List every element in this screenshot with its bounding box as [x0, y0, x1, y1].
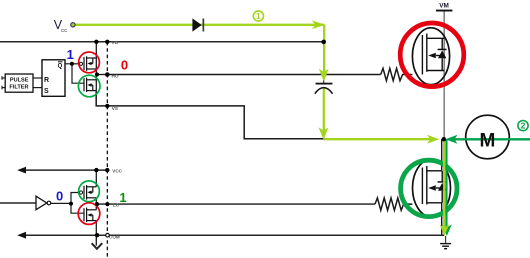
pulse filter box	[5, 74, 33, 92]
svg-text:0: 0	[56, 189, 63, 204]
wire Q2 drain	[441, 139, 443, 171]
wire HO tee	[96, 74, 107, 76]
wire VB rail	[0, 41, 324, 43]
svg-text:COM: COM	[109, 234, 120, 239]
ground arrow below low driver	[95, 235, 97, 245]
inverter low-side input	[36, 196, 47, 210]
label circled 1	[253, 11, 263, 21]
wire RS output	[65, 63, 72, 65]
wire driver-pair vertical (VCC to COM)	[95, 170, 97, 187]
arrow path 2 to ground	[442, 224, 451, 236]
node COM terminal (open)	[106, 233, 110, 237]
svg-text:0: 0	[121, 58, 128, 73]
wire VCC line (low-side driver)	[25, 169, 108, 171]
svg-text:VS: VS	[112, 106, 118, 111]
wire LO line	[96, 203, 375, 205]
body diode Q1	[438, 49, 447, 51]
wire HO line	[107, 74, 380, 76]
wire path 2 down through Q2 (dark green)	[445, 140, 447, 230]
circle red around high PMOS	[79, 52, 100, 73]
current path 1 (bright green): Vcc to bootstrap cap	[75, 24, 324, 26]
pulse filter input stubs	[2, 77, 6, 79]
svg-text:R: R	[44, 77, 49, 84]
svg-text:S: S	[44, 88, 49, 95]
ring red around Q1	[400, 23, 464, 87]
arrow path 1 right before corner	[312, 21, 325, 30]
svg-text:Q: Q	[58, 63, 63, 69]
arrow VCC left	[17, 167, 26, 174]
arrow path 1 to ground	[440, 224, 450, 236]
resistor RG1 (high-side gate)	[381, 68, 413, 80]
svg-text:FILTER: FILTER	[9, 85, 28, 91]
wire VS stub from dashed line	[106, 105, 108, 107]
MOSFET Q1 high-side (body ellipse)	[412, 28, 449, 85]
wire path 1 down through Q2 to ground	[443, 139, 445, 230]
capacitor C1 curved plate	[315, 88, 333, 94]
circle green around low PMOS	[79, 181, 100, 202]
wire Q2 source	[441, 203, 443, 235]
arrow path 2 left into node	[445, 135, 457, 144]
wire path 1 along VS to switch node	[324, 138, 431, 140]
current path 2 motor line (dark green)	[451, 138, 530, 140]
RS latch box	[42, 60, 65, 97]
MOSFET Q2 low-side (body ellipse)	[413, 159, 451, 217]
capacitor C1 bootstrap (top plate)	[316, 83, 333, 85]
svg-text:VCC: VCC	[112, 169, 122, 174]
svg-text:1: 1	[67, 47, 74, 62]
driver PMOS low (gate lead)	[71, 193, 79, 204]
ring green around Q2	[401, 160, 457, 216]
wire VM drain line (gray)	[443, 12, 445, 140]
arrow path 1 into cap top	[319, 69, 329, 82]
svg-text:M: M	[479, 130, 495, 151]
arrow path 1 onto VS line	[319, 127, 329, 139]
circle green around high NMOS	[78, 75, 100, 97]
wire bootstrap cap branch (under green path)	[323, 42, 325, 83]
wires pulse filter to RS latch	[33, 77, 42, 79]
label circled 2	[518, 121, 528, 131]
wire low-side input	[0, 202, 36, 204]
junction dots	[94, 40, 98, 44]
driver NMOS high (gate lead)	[72, 64, 84, 83]
node switch (motor)	[442, 137, 446, 141]
body diode Q2	[438, 181, 447, 183]
wire COM line	[25, 234, 445, 236]
ground symbol	[445, 236, 447, 243]
wire inverter output	[51, 202, 71, 204]
arrow path 1 right into node	[427, 135, 439, 144]
driver PMOS high (gate lead)	[72, 63, 79, 65]
wire driver-pair vertical (VB to VS)	[95, 42, 97, 91]
motor M circle	[466, 115, 510, 159]
driver NMOS low (gate lead)	[71, 203, 84, 213]
svg-text:1: 1	[256, 11, 261, 21]
svg-text:HO: HO	[112, 74, 119, 79]
svg-text:1: 1	[119, 190, 126, 205]
svg-text:PULSE: PULSE	[10, 78, 29, 84]
circle red around low NMOS	[78, 203, 100, 225]
diode D1 bootstrap	[192, 18, 201, 31]
wire VS line with step	[96, 91, 326, 139]
resistor RG2 (low-side gate)	[375, 198, 412, 210]
svg-text:VM: VM	[439, 3, 449, 10]
svg-text:VB: VB	[112, 40, 119, 45]
svg-text:2: 2	[521, 121, 526, 131]
svg-text:CC: CC	[61, 28, 67, 33]
arrow COM left	[17, 232, 26, 239]
dashed IC boundary line	[106, 42, 108, 258]
